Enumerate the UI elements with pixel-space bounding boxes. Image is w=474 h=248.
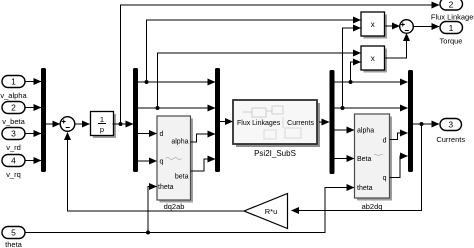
demux D2 (330, 70, 335, 174)
wire theta tap to dq2ab theta (148, 187, 157, 233)
subsystem Psi2I_SubS (233, 100, 320, 158)
wire ab2dq d to mux M3 (390, 133, 408, 140)
svg-text:2: 2 (449, 0, 454, 10)
wire psi tap to output port Flux Linkages (121, 5, 440, 124)
svg-text:Torque: Torque (440, 37, 463, 46)
wire port2 to mux M1 (25, 107, 41, 109)
wire sum S1 to integrator (75, 123, 90, 125)
subsystem ab2dq (355, 114, 393, 211)
svg-text:d: d (383, 138, 387, 145)
wire gain R*u output to sum S1 (68, 133, 245, 212)
svg-text:theta: theta (158, 184, 174, 191)
product P2 (361, 46, 387, 73)
junction node psi_alpha (145, 80, 149, 84)
wire D1 out4 to dq2ab q (138, 160, 157, 162)
wire dq2ab beta to mux M2 (191, 159, 216, 171)
wire currents tap down to gain R*u (292, 124, 422, 211)
svg-text:v_rd: v_rd (6, 143, 21, 152)
svg-text:1: 1 (449, 23, 454, 33)
wire port3 to mux M1 (25, 133, 41, 135)
wire integrator to demux D1 with junction (113, 123, 134, 125)
wire product P1 to sum S2 (385, 25, 400, 27)
wire Psi2I_SubS to demux D2 (319, 121, 329, 123)
wire sum S2 to output port Torque (413, 26, 439, 28)
sum S2 (400, 20, 414, 34)
svg-text:Flux Linkages: Flux Linkages (237, 120, 281, 127)
svg-text:v_alpha: v_alpha (0, 91, 27, 100)
junction node psi_beta (156, 106, 160, 110)
wire theta port5 to ab2dq theta (25, 188, 354, 233)
junction node i_beta (341, 106, 345, 110)
wire D1 out1 (psi_alpha) to mux M2 (138, 81, 215, 83)
wire port4 to mux M1 (25, 160, 41, 162)
svg-text:Currents: Currents (287, 120, 314, 127)
svg-text:2: 2 (11, 103, 16, 113)
wire D2 out4 to ab2dq Beta (335, 158, 355, 160)
input port 5 (2, 227, 25, 248)
svg-text:beta: beta (175, 174, 189, 181)
svg-text:x: x (371, 20, 375, 29)
junction node currents (420, 122, 424, 126)
product P1 (361, 12, 387, 39)
svg-text:d: d (160, 131, 164, 138)
input port 3 (2, 128, 25, 153)
svg-text:q: q (160, 159, 164, 166)
svg-text:Currents: Currents (436, 135, 465, 144)
mux M2 (215, 68, 220, 172)
wire dq2ab alpha to mux M2 (191, 134, 216, 142)
mux M3 (408, 70, 413, 172)
svg-text:theta: theta (357, 185, 373, 192)
input port 2 (2, 102, 26, 127)
wire D1 out3 to dq2ab d (138, 133, 157, 135)
svg-text:5: 5 (11, 228, 16, 238)
wire i_alpha tap to product P2 (351, 62, 361, 82)
sum S1 (60, 117, 75, 132)
wire product P2 to sum S2 (385, 34, 407, 59)
demux D1 (133, 68, 138, 172)
wire psi_alpha tap to product P1 (147, 20, 361, 82)
svg-text:Psi2I_SubS: Psi2I_SubS (254, 149, 296, 158)
gain R*u (244, 194, 288, 229)
wire D1 out2 (psi_beta) to mux M2 (138, 107, 215, 109)
svg-text:alpha: alpha (357, 128, 374, 135)
wire port1 to mux M1 (25, 81, 41, 83)
wire mux M2 to Psi2I_SubS (220, 121, 233, 123)
wire mux M1 to sum S1 (46, 123, 60, 125)
junction node theta (146, 231, 150, 235)
svg-text:theta: theta (5, 240, 23, 248)
wire ab2dq q to mux M3 (390, 156, 408, 178)
wire psi_beta tap to product P2 (158, 53, 361, 108)
svg-text:Beta: Beta (357, 156, 372, 163)
input port 4 (2, 155, 25, 180)
svg-text:x: x (371, 54, 375, 63)
subsystem dq2ab (157, 116, 193, 211)
svg-text:4: 4 (11, 156, 16, 166)
svg-text:R*u: R*u (265, 207, 278, 216)
output port 3 Currents (436, 119, 465, 145)
wire D2 out2 (i_beta) to mux M3 (335, 107, 408, 109)
wire D2 out3 to ab2dq alpha (335, 129, 355, 131)
svg-text:v_beta: v_beta (2, 117, 25, 126)
svg-text:3: 3 (11, 129, 16, 139)
svg-text:p: p (100, 125, 104, 134)
output port 1 Torque (440, 22, 463, 46)
svg-text:1: 1 (11, 77, 16, 87)
junction node i_alpha (349, 80, 353, 84)
svg-text:1: 1 (100, 115, 104, 124)
svg-text:q: q (383, 175, 387, 182)
junction node psi (119, 122, 123, 126)
svg-text:Flux Linkages: Flux Linkages (431, 13, 474, 22)
svg-text:ab2dq: ab2dq (362, 202, 383, 211)
wire D2 out1 (i_alpha) to mux M3 (335, 81, 408, 83)
input port 1 (0, 76, 27, 101)
mux M1 (41, 68, 46, 172)
integrator 1/p (91, 112, 117, 139)
svg-text:3: 3 (448, 120, 453, 130)
svg-text:alpha: alpha (171, 139, 188, 146)
svg-text:v_rq: v_rq (6, 170, 21, 179)
output port 2 Flux Linkages (431, 0, 474, 22)
svg-text:dq2ab: dq2ab (164, 202, 185, 211)
wire mux M3 to output port Currents with junction (413, 123, 439, 125)
wire i_beta tap to product P1 (343, 28, 361, 108)
